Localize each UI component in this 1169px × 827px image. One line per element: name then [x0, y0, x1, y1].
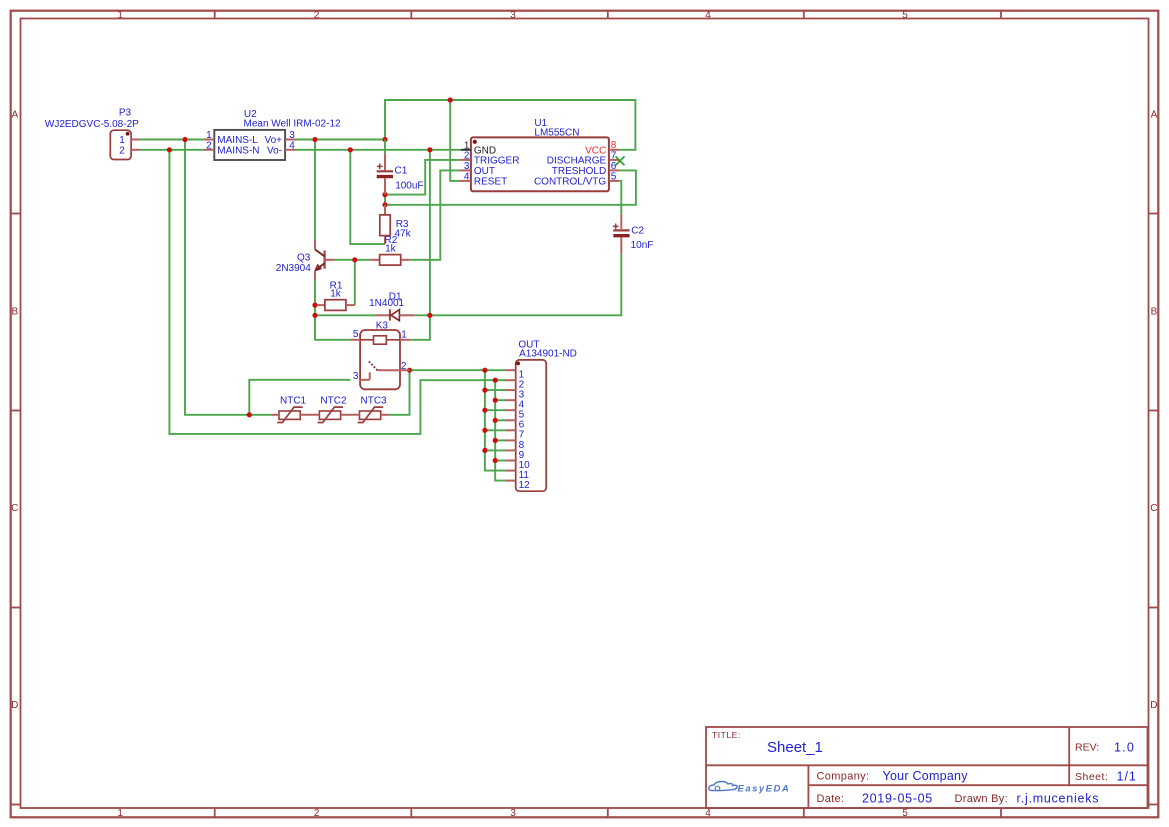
- OUT pin 10 stub: [506, 460, 516, 462]
- svg-text:4: 4: [289, 141, 295, 152]
- IC U1 LM555CN body: [471, 137, 609, 191]
- svg-text:A: A: [1151, 110, 1158, 121]
- wire D1 cathode side to node: [415, 314, 430, 316]
- svg-text:D: D: [1150, 700, 1157, 711]
- P3 pin 2 stub: [131, 149, 140, 151]
- NTC1 left lead: [272, 414, 279, 416]
- OUT pin 5 stub: [506, 409, 516, 411]
- svg-text:100uF: 100uF: [395, 181, 423, 192]
- junction: [482, 368, 487, 373]
- title block outline: [706, 727, 1148, 808]
- svg-text:4: 4: [464, 171, 470, 182]
- wire OUT even pin tap: [495, 439, 505, 441]
- svg-text:EasyEDA: EasyEDA: [738, 783, 791, 794]
- U2 pin 2 stub: [203, 149, 214, 151]
- junction: [482, 448, 487, 453]
- wire K3 pin2 to OUT pin1 row: [410, 369, 506, 371]
- svg-text:1k: 1k: [385, 243, 397, 254]
- Q3 collector lead: [314, 240, 316, 249]
- svg-text:CONTROL/VTG: CONTROL/VTG: [534, 176, 606, 187]
- K3 pin 2 lead: [377, 369, 409, 371]
- svg-text:2: 2: [119, 145, 125, 156]
- title block divider vertical rev column: [1068, 727, 1070, 785]
- wire OUT odd pin tap: [485, 389, 506, 391]
- OUT pin 3 stub: [506, 389, 516, 391]
- D1 anode-side lead: [375, 314, 390, 316]
- svg-text:4: 4: [705, 10, 711, 21]
- EasyEDA logo cloud icon: [709, 782, 737, 791]
- svg-text:2: 2: [314, 10, 320, 21]
- C2 plus sign horizontal: [613, 225, 619, 227]
- U1 pin 2 stub: [460, 159, 471, 161]
- frame tick bottom: [803, 808, 805, 817]
- frame tick right: [1149, 213, 1159, 215]
- junction: [448, 97, 453, 102]
- svg-text:C2: C2: [631, 226, 644, 237]
- U1 pin 4 stub: [460, 180, 471, 182]
- svg-text:2N3904: 2N3904: [276, 263, 311, 274]
- svg-text:NTC2: NTC2: [320, 395, 347, 406]
- K3 pin 5 stub: [350, 339, 360, 341]
- svg-text:3: 3: [464, 161, 470, 172]
- junction: [493, 378, 498, 383]
- wire OUT odd pins bus vertical: [485, 370, 506, 470]
- frame tick bottom: [607, 808, 609, 817]
- OUT pin 9 stub: [506, 449, 516, 451]
- frame tick top: [1000, 11, 1002, 19]
- R3 bottom lead: [384, 236, 386, 245]
- R2 left lead: [370, 259, 380, 261]
- wire OUT even pins bus vertical: [495, 380, 505, 480]
- wire mains-L down to NTC row: [185, 140, 272, 415]
- wire U1 TRESHOLD to C1/R3 node: [385, 170, 636, 204]
- K3 switch common post: [369, 372, 371, 380]
- wire GND row down to D1 row: [429, 150, 431, 315]
- C1 bottom plate: [377, 175, 393, 178]
- module U2 Mean Well IRM-02-12: [214, 130, 285, 160]
- D1 cathode-side lead: [399, 314, 414, 316]
- OUT pin 1 stub: [506, 369, 516, 371]
- P3 pin 1 stub: [131, 139, 140, 141]
- junction: [493, 398, 498, 403]
- Q3 collector diagonal: [315, 250, 325, 257]
- svg-text:2: 2: [206, 140, 212, 151]
- svg-text:5: 5: [353, 329, 359, 340]
- NTC3 right lead: [381, 414, 390, 416]
- svg-text:5: 5: [902, 10, 908, 21]
- U1 pin 7 stub: [609, 159, 619, 161]
- wire OUT even pin tap: [495, 460, 505, 462]
- svg-text:1.0: 1.0: [1114, 740, 1135, 754]
- K3 coil left link: [360, 339, 373, 341]
- relay K3 body: [360, 330, 400, 389]
- junction: [407, 368, 412, 373]
- svg-text:1: 1: [117, 808, 123, 819]
- U1 pin 1 stub (GND): [461, 149, 471, 151]
- svg-text:3: 3: [353, 371, 359, 382]
- C1 top plate: [377, 170, 393, 172]
- junction: [348, 147, 353, 152]
- wire OUT even pin tap: [495, 399, 505, 401]
- wire P3 pin2 to U2 pin2: [140, 149, 203, 151]
- junction: [312, 137, 317, 142]
- C1 plus sign horizontal: [377, 165, 383, 167]
- U1 pin1 indicator dot: [473, 140, 477, 144]
- svg-text:NTC1: NTC1: [280, 395, 307, 406]
- svg-text:3: 3: [510, 808, 516, 819]
- wire U2 Vo- to U1 GND row: [296, 149, 461, 151]
- NTC1-NTC2 link: [300, 414, 319, 416]
- wire R2 left node down to R1 right: [354, 260, 356, 305]
- svg-text:DISCHARGE: DISCHARGE: [547, 155, 607, 166]
- frame tick left: [11, 607, 21, 609]
- junction: [352, 257, 357, 262]
- thermistor NTC2: [319, 411, 340, 419]
- junction: [493, 418, 498, 423]
- C2 bottom plate: [613, 234, 629, 237]
- frame tick top: [410, 11, 412, 19]
- K3 pin 3 inner lead: [360, 379, 370, 381]
- svg-text:2: 2: [464, 150, 470, 161]
- wire C2 bottom to D1 row: [430, 254, 621, 315]
- wire K3 pin3 to NTC row: [249, 380, 350, 415]
- C1 bottom lead: [384, 178, 386, 194]
- svg-text:12: 12: [519, 480, 531, 491]
- wire U1 OUT to R2 right: [410, 170, 460, 259]
- U2 pin 4 stub: [285, 149, 295, 151]
- svg-text:MAINS-N: MAINS-N: [217, 145, 259, 156]
- wire K3 pin2 down to NTC3 right: [390, 370, 410, 415]
- svg-text:A: A: [11, 110, 18, 121]
- wire U2 Vo+ row: [296, 139, 386, 141]
- frame tick right: [1149, 607, 1159, 609]
- OUT pin 12 stub: [506, 480, 516, 482]
- OUT pin 7 stub: [506, 429, 516, 431]
- junction: [427, 313, 432, 318]
- svg-text:1k: 1k: [330, 289, 342, 300]
- frame tick bottom: [214, 808, 216, 817]
- svg-text:TRESHOLD: TRESHOLD: [552, 166, 606, 177]
- wire D1 node to K3 pin1: [411, 315, 430, 340]
- svg-text:WJ2EDGVC-5.08-2P: WJ2EDGVC-5.08-2P: [45, 119, 139, 130]
- NTC2-NTC3 link: [341, 414, 360, 416]
- K3 switch blade: [369, 362, 378, 371]
- Q3 emitter arrow: [315, 265, 321, 271]
- frame tick left: [11, 213, 21, 215]
- junction: [247, 412, 252, 417]
- frame tick bottom: [1000, 808, 1002, 817]
- wire R3 bottom to GND row: [350, 150, 385, 244]
- svg-text:1N4001: 1N4001: [369, 298, 404, 309]
- svg-text:Your Company: Your Company: [883, 769, 969, 783]
- OUT pin 2 stub: [506, 379, 516, 381]
- U1 pin 6 stub: [609, 169, 619, 171]
- frame tick left: [11, 804, 21, 806]
- svg-text:D: D: [11, 700, 18, 711]
- R1 left lead: [317, 304, 325, 306]
- svg-text:C: C: [1150, 503, 1157, 514]
- junction: [493, 458, 498, 463]
- svg-text:Date:: Date:: [817, 793, 845, 805]
- svg-text:TRIGGER: TRIGGER: [474, 155, 520, 166]
- K3 coil right link: [386, 339, 400, 341]
- C1 top lead: [384, 154, 386, 170]
- wire OUT odd pin tap: [485, 449, 506, 451]
- svg-text:10nF: 10nF: [631, 240, 654, 251]
- svg-text:4: 4: [705, 808, 711, 819]
- wire D1 row to K3 pin5: [315, 315, 350, 340]
- connector P3 WJ2EDGVC-5.08-2P: [110, 130, 131, 159]
- svg-text:B: B: [1151, 306, 1158, 317]
- svg-text:Vo-: Vo-: [267, 145, 282, 156]
- U1 pin 3 stub: [460, 169, 471, 171]
- svg-text:2: 2: [401, 361, 407, 372]
- svg-text:5: 5: [611, 171, 617, 182]
- no-connect flag on U1 pin 7: [616, 156, 625, 165]
- junction: [382, 192, 387, 197]
- svg-text:TITLE:: TITLE:: [712, 730, 741, 740]
- junction: [312, 313, 317, 318]
- svg-text:5: 5: [902, 808, 908, 819]
- junction: [312, 303, 317, 308]
- svg-text:P3: P3: [119, 108, 132, 119]
- frame tick right: [1149, 804, 1159, 806]
- junction: [167, 147, 172, 152]
- svg-text:NTC3: NTC3: [361, 395, 388, 406]
- svg-text:1: 1: [117, 10, 123, 21]
- OUT pin 4 stub: [506, 399, 516, 401]
- Q3 emitter diagonal: [316, 263, 325, 270]
- OUT pin1 indicator dot: [516, 362, 520, 366]
- svg-text:r.j.mucenieks: r.j.mucenieks: [1017, 791, 1100, 805]
- connector OUT A134901-ND body: [516, 360, 547, 491]
- P3 pin1 indicator dot: [126, 132, 130, 136]
- junction: [382, 137, 387, 142]
- junction: [482, 428, 487, 433]
- OUT pin 6 stub: [506, 419, 516, 421]
- svg-text:1/1: 1/1: [1117, 769, 1137, 783]
- Q3 base bar: [323, 251, 325, 269]
- D1 triangle: [391, 310, 399, 321]
- C1 top wire: [384, 140, 386, 155]
- title block divider horizontal 2: [808, 784, 1147, 786]
- svg-text:2: 2: [314, 808, 320, 819]
- OUT pin 11 stub: [506, 470, 516, 472]
- wire OUT odd pin tap: [485, 409, 506, 411]
- wire OUT even pin tap: [495, 419, 505, 421]
- svg-text:6: 6: [611, 161, 617, 172]
- svg-text:RESET: RESET: [474, 176, 507, 187]
- junction: [182, 137, 187, 142]
- wire C1 bottom node segment: [384, 195, 386, 205]
- frame tick bottom: [410, 808, 412, 817]
- svg-text:K3: K3: [376, 321, 389, 332]
- U2 pin 1 stub: [203, 139, 214, 141]
- wire R1 left node to D1 row: [314, 305, 316, 315]
- wire U1 TRIGGER to C1 bottom: [385, 160, 460, 195]
- svg-text:8: 8: [611, 140, 617, 151]
- R3 top lead: [384, 205, 386, 215]
- frame tick top: [607, 11, 609, 19]
- U2 pin 3 stub: [285, 139, 295, 141]
- C2 bottom lead: [620, 237, 622, 254]
- D1 cathode bar: [389, 309, 391, 320]
- thermistor NTC1: [279, 411, 300, 419]
- wire VCC rail to U1 RESET: [450, 100, 459, 181]
- svg-text:Company:: Company:: [817, 770, 870, 782]
- svg-text:Sheet:: Sheet:: [1075, 771, 1108, 783]
- title block divider vertical logo cell: [807, 765, 809, 808]
- junction: [493, 438, 498, 443]
- svg-text:7: 7: [611, 150, 617, 161]
- wire Q3 emitter down to R1 left: [314, 280, 316, 305]
- wire VCC top rail to U1 pin8: [385, 100, 635, 150]
- svg-text:A134901-ND: A134901-ND: [519, 348, 577, 359]
- frame tick right: [1149, 410, 1159, 412]
- svg-text:C1: C1: [395, 166, 408, 177]
- svg-text:B: B: [11, 306, 18, 317]
- junction: [482, 388, 487, 393]
- wire U1 CONTROL/VTG to C2 top: [620, 181, 622, 214]
- U1 pin 5 stub: [609, 180, 619, 182]
- svg-text:REV:: REV:: [1075, 741, 1099, 753]
- svg-text:Drawn By:: Drawn By:: [955, 793, 1008, 805]
- svg-text:3: 3: [510, 10, 516, 21]
- U1 pin 8 stub: [609, 149, 619, 151]
- C2 top lead: [620, 214, 622, 229]
- wire OUT odd pin tap: [485, 429, 506, 431]
- R1 right lead: [346, 304, 355, 306]
- svg-text:Mean Well IRM-02-12: Mean Well IRM-02-12: [244, 119, 342, 130]
- svg-text:2019-05-05: 2019-05-05: [862, 791, 933, 805]
- frame tick top: [803, 11, 805, 19]
- Q3 emitter lead: [314, 271, 316, 280]
- svg-text:OUT: OUT: [474, 166, 495, 177]
- Q3 base lead: [325, 259, 335, 261]
- svg-text:1: 1: [401, 329, 407, 340]
- wire D1 row left segment: [315, 314, 376, 316]
- frame tick left: [11, 410, 21, 412]
- K3 pin 1 stub: [400, 339, 411, 341]
- svg-text:C: C: [11, 503, 18, 514]
- wire Vo+ down to Q3 collector: [314, 140, 316, 241]
- junction: [382, 202, 387, 207]
- title block divider horizontal 1: [706, 764, 1148, 766]
- C2 top plate: [613, 229, 629, 231]
- svg-text:LM555CN: LM555CN: [534, 127, 579, 138]
- wire mains-N down to OUT pin2 row: [169, 150, 505, 434]
- wire Q3 base to R2 left: [335, 259, 371, 261]
- svg-text:Sheet_1: Sheet_1: [767, 739, 823, 756]
- thermistor NTC3: [360, 411, 381, 419]
- frame tick top: [214, 11, 216, 19]
- junction: [482, 408, 487, 413]
- R2 right lead: [401, 259, 410, 261]
- OUT pin 8 stub: [506, 439, 516, 441]
- wire P3 pin1 to U2 pin1: [140, 139, 203, 141]
- junction: [427, 147, 432, 152]
